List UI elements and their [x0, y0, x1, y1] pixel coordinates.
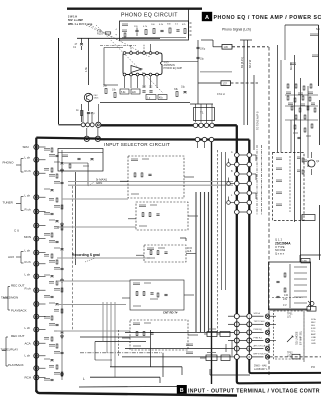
wire vertical links bottom [119, 330, 164, 377]
svg-text:TUNER: TUNER [3, 201, 14, 205]
capacitor C104 [151, 24, 155, 34]
junction switch contacts row 2 [84, 136, 100, 141]
wire to T1 [190, 103, 213, 105]
switch arrow contact [287, 336, 293, 342]
svg-text:AP1 SYCLA LO: AP1 SYCLA LO [254, 344, 270, 347]
svg-text:1815: 1815 [94, 98, 100, 100]
wire switch common dashed [289, 156, 291, 212]
pin box edge ticks [190, 23, 192, 35]
junction label A black box [202, 12, 212, 21]
switch block S2 [128, 202, 198, 230]
label TP01 [287, 314, 293, 319]
capacitor C107 [175, 24, 180, 32]
wire tape loop pair [80, 337, 150, 342]
svg-text:R ch: R ch [25, 260, 32, 264]
wire jack stubs [39, 147, 46, 377]
svg-text:O TYPE: O TYPE [275, 245, 285, 249]
label sheet title top [214, 15, 321, 21]
connector CN140 top of switch box [268, 307, 316, 312]
connector J10 input jack [25, 273, 39, 279]
wire bottom middle verticals [226, 340, 232, 356]
wire left border of phono EQ block [58, 38, 60, 124]
switch dashed enclosure bottom right [274, 311, 305, 362]
label right margin notes [310, 27, 321, 57]
svg-text:AMP: AMP [311, 333, 316, 336]
wire bottom link [210, 369, 250, 375]
connector J14 input jack [25, 326, 39, 332]
junction label B black box [177, 385, 186, 393]
capacitor C109 [142, 86, 147, 93]
wire supply tap top [240, 39, 252, 41]
connector CN139 dashed link [270, 354, 321, 359]
wire TUNER pair bracket [16, 197, 24, 211]
wire right vertical net [294, 55, 296, 222]
capacitor C101 [73, 38, 83, 50]
wire grey bus pair [68, 182, 233, 186]
svg-text:132: 132 [284, 294, 289, 297]
component cluster inside regulator box [276, 264, 307, 308]
svg-text:R ch: R ch [25, 208, 32, 212]
wire leader to recording signal [85, 258, 95, 262]
svg-text:L ch: L ch [25, 354, 31, 358]
label right margin pin names [311, 318, 316, 345]
svg-text:24V: 24V [283, 298, 288, 301]
component cluster tone amp right [285, 84, 318, 120]
connector J18 input jack [25, 375, 39, 380]
component cluster below tone amp [291, 86, 313, 158]
wire right vertical net 2 [300, 78, 302, 262]
component ladder input filters [44, 148, 64, 381]
svg-text:TAPE1/PLAY: TAPE1/PLAY [1, 348, 19, 352]
svg-text:SRU: SRU [23, 145, 29, 149]
wire lower rail of phono box [100, 102, 190, 104]
label switch contact names [276, 158, 282, 206]
label bottom middle notes [186, 344, 193, 354]
svg-text:INPUT SELECTOR CIRCUIT: INPUT SELECTOR CIRCUIT [104, 142, 170, 147]
resistor R101 [97, 30, 111, 36]
wire right top rail [285, 24, 319, 26]
resistor R109 [182, 24, 186, 34]
label line amp [163, 311, 178, 315]
wire bottom signal L [83, 377, 160, 381]
label left column [116, 29, 118, 36]
capacitor C119 and C121 rail [196, 40, 205, 104]
ground symbols ladder [60, 168, 64, 376]
wire bus B to bottom right [249, 359, 321, 373]
resistor R119 [158, 95, 167, 100]
connector J4 input jack [3, 194, 39, 205]
wire feedback left [104, 48, 123, 86]
wire dash-dot bias line [100, 45, 136, 47]
svg-text:PHN R-L: PHN R-L [254, 337, 264, 339]
svg-text:50V: Ls AMP: 50V: Ls AMP [68, 19, 83, 22]
wire feeds into terminals [122, 316, 234, 357]
resistor R113 [112, 89, 117, 98]
wire drops to terminal strip [160, 367, 182, 383]
svg-text:7(2) L MODE: 7(2) L MODE [297, 331, 299, 345]
wire long dashed net right [268, 47, 270, 375]
label wire note [217, 92, 225, 96]
svg-text:A: A [205, 15, 209, 21]
svg-text:L(7): L(7) [287, 316, 291, 318]
svg-text:PHONO EQ AMP: PHONO EQ AMP [164, 67, 183, 70]
transformer T1 box [194, 108, 215, 121]
pin bottom pins of U101 [123, 73, 158, 76]
note text schematic notes [68, 16, 93, 26]
svg-text:9 61 H: 9 61 H [217, 92, 225, 96]
svg-text:B F AMP SEL: B F AMP SEL [300, 330, 303, 345]
svg-text:R ch: R ch [25, 287, 32, 291]
wire phono input rail [77, 37, 160, 39]
wire dash-dot shield [80, 352, 162, 354]
svg-text:TNT TOHL I: TNT TOHL I [254, 321, 266, 323]
svg-text:B FF: B FF [311, 328, 316, 330]
label PHONO EQ CIRCUIT [121, 13, 178, 19]
svg-text:CNT RD 7#: CNT RD 7# [163, 311, 178, 315]
resistor pair bottom R303 R304 [200, 353, 230, 361]
capacitor C113 [146, 95, 156, 100]
wire supply pair with labels [240, 40, 252, 125]
connector J11 input jack [11, 284, 39, 293]
wire dash-dot pair right of buses [257, 145, 262, 215]
wire bus A vertical [236, 125, 238, 313]
svg-text:ALB: ALB [187, 250, 192, 253]
svg-text:WRL: Ls 16 V C amp: WRL: Ls 16 V C amp [68, 23, 93, 26]
wire dashed net 132 [272, 294, 303, 298]
svg-text:68.2 W: 68.2 W [248, 59, 252, 68]
svg-text:C U: C U [14, 229, 19, 233]
wire top pin risers [131, 44, 151, 52]
wire ladder feed rail [75, 172, 77, 265]
svg-text:REC OUT: REC OUT [11, 334, 25, 338]
svg-text:PLAYBACK: PLAYBACK [8, 363, 24, 367]
wire TAPE1 bracket [2, 337, 8, 366]
wire dashed callout leaders [86, 25, 163, 93]
svg-text:10μ: 10μ [200, 59, 205, 61]
resistor R117 [131, 89, 140, 94]
svg-text:LINE: LINE [311, 337, 316, 339]
connector J2 input jack [3, 156, 39, 165]
pin top pins of U101 [123, 52, 158, 55]
svg-text:REC: REC [311, 322, 316, 324]
wire group signal drops to terminals [196, 150, 226, 332]
wire bus A to bottom right [237, 359, 321, 383]
connector J9 input jack [25, 260, 39, 266]
terminal block output rows [234, 314, 269, 360]
junction T1 row 1 [193, 123, 214, 127]
svg-text:BFF E NICH O: BFF E NICH O [254, 354, 269, 356]
svg-text:PHONO EQ CIRCUIT: PHONO EQ CIRCUIT [121, 13, 178, 19]
resistor R103 [143, 26, 148, 35]
connector CN138 [301, 259, 310, 264]
wire grey recording buses [57, 199, 150, 331]
label rotated net name [290, 62, 296, 70]
switch block muting [122, 320, 198, 350]
wire PHONO pair bracket [16, 159, 24, 173]
capacitor C103 [134, 26, 139, 36]
connector J7 input jack [24, 235, 39, 241]
svg-text:B: B [180, 388, 184, 394]
svg-text:NO FIN2: NO FIN2 [275, 248, 286, 252]
resistor R107 [167, 24, 171, 34]
svg-text:2 W 1 H: 2 W 1 H [68, 16, 77, 19]
label Recording Signal [72, 253, 100, 257]
svg-text:137: 137 [223, 82, 228, 86]
wire IC bottom pin drops [125, 76, 158, 88]
svg-text:68.2 W: 68.2 W [290, 62, 293, 70]
label regulator voltages [283, 298, 288, 307]
switch block S4 [122, 280, 194, 310]
wire T1 primary drops [196, 104, 213, 123]
wire main bus lower [101, 138, 250, 141]
svg-text:390: 390 [142, 86, 147, 89]
transistor Q201 [308, 152, 320, 175]
connector CN136 phono signal [213, 45, 269, 50]
svg-text:AUX: AUX [8, 255, 14, 259]
svg-text:ACA: ACA [25, 342, 31, 346]
label INPUT SELECTOR CIRCUIT [104, 142, 170, 147]
wire TAPE2 bracket [3, 287, 10, 311]
connector J3 input jack [25, 169, 39, 176]
switch S201 dashed enclosure [273, 153, 316, 221]
svg-text:L ch: L ch [25, 326, 31, 330]
wire dash-dot shield rail [72, 186, 74, 330]
transistor Q101 [84, 93, 99, 101]
switch contact matrix rotary selector [227, 153, 256, 215]
label select annotation [88, 178, 107, 187]
svg-text:REC OUT: REC OUT [11, 284, 25, 288]
connector arrow right margin [308, 301, 314, 306]
label TP02 [287, 353, 293, 358]
svg-text:TP01: TP01 [287, 314, 293, 316]
wire output of U101 [162, 61, 198, 63]
svg-text:TP L: TP L [311, 331, 316, 333]
wire T1 drops [198, 142, 205, 148]
junction switch contacts row 1 [81, 122, 101, 127]
svg-text:138: 138 [302, 260, 307, 263]
svg-text:47μ: 47μ [91, 112, 96, 115]
svg-text:GND: GND [311, 343, 316, 345]
svg-text:INPUT · OUTPUT TERMINAL / VOL: INPUT · OUTPUT TERMINAL / VOLTAGE CONTR [188, 388, 320, 394]
svg-text:L: L [83, 377, 85, 381]
resistor R111 [103, 85, 108, 94]
node dashed corner [268, 46, 270, 48]
capacitor C105 [159, 24, 164, 32]
svg-text:SPK A: SPK A [254, 312, 261, 315]
resistor R102 [122, 24, 128, 37]
wire right edge lower segments [319, 100, 321, 260]
svg-text:Phono Signal (Lch): Phono Signal (Lch) [222, 28, 251, 32]
svg-text:RCH: RCH [25, 376, 32, 380]
connector J15 input jack [11, 334, 39, 346]
svg-text:Recording S gnal: Recording S gnal [72, 253, 100, 257]
svg-text:48 R: 48 R [187, 248, 192, 250]
svg-text:LAO84407 L: LAO84407 L [254, 368, 268, 371]
wire AUX pair bracket [16, 252, 24, 264]
svg-text:2SC2664A: 2SC2664A [275, 241, 291, 245]
svg-text:MON: MON [24, 235, 31, 239]
svg-text:TAPE2/MON: TAPE2/MON [1, 296, 18, 300]
filter block phono input [58, 149, 103, 172]
capacitor C111 [149, 86, 153, 93]
wire terminal column links [237, 319, 250, 355]
wire component rail lower [122, 37, 186, 39]
connector J17 input jack [8, 363, 39, 371]
svg-text:PHONO: PHONO [3, 161, 15, 165]
label Q2 value [302, 160, 307, 162]
svg-text:100μ: 100μ [200, 49, 206, 51]
svg-text:S2 A: S2 A [311, 318, 316, 321]
junction T1 row 2 [195, 137, 213, 141]
label S3 annotation [180, 238, 192, 253]
wire right vertical pair [278, 45, 282, 152]
wire thin pre-bottom rail [79, 385, 180, 388]
svg-text:R101: R101 [97, 33, 103, 36]
svg-text:L ch: L ch [25, 249, 31, 253]
label drawing number [254, 365, 268, 371]
label transistor type 2SC2664A [275, 238, 291, 256]
svg-text:PLAYBACK: PLAYBACK [11, 309, 27, 313]
label PO margin [311, 365, 316, 369]
wire into bus row 1 [59, 124, 82, 126]
connector J12 input jack [1, 296, 39, 307]
svg-text:B2 (6.3V): B2 (6.3V) [240, 57, 244, 68]
wire bias drops [82, 102, 89, 122]
svg-text:0 V: 0 V [283, 304, 287, 307]
svg-text:T1: T1 [200, 111, 204, 115]
svg-text:L ch: L ch [25, 194, 31, 198]
block phono input network box [120, 21, 189, 40]
wire regulator feed [300, 255, 321, 262]
label rotated mode text [297, 330, 303, 345]
block voltage regulator box [269, 262, 311, 310]
wire L-link [95, 342, 112, 361]
svg-text:R ch: R ch [25, 169, 32, 173]
wire grey return path [200, 71, 232, 73]
connector J1 input jack [23, 145, 39, 150]
svg-text:PWR F(): PWR F() [254, 329, 263, 331]
wire bottom signal [110, 366, 182, 368]
svg-text:TO TONE AMP B: TO TONE AMP B [257, 111, 260, 130]
wire bus B vertical [248, 140, 250, 314]
wire right edge verticals [285, 25, 319, 86]
label U101 part number [164, 61, 183, 70]
wire selector frame top left [36, 138, 100, 139]
wire selector frame left vertical bus [35, 138, 37, 392]
op-amp U101 phono EQ amp [123, 53, 162, 75]
wire contact risers [83, 104, 98, 136]
connector J13 input jack [11, 309, 39, 320]
connector CN137 phono return [198, 81, 258, 86]
label terminal row names [254, 312, 270, 356]
svg-text:L ch: L ch [25, 156, 31, 160]
resistor R115 [120, 89, 129, 94]
wire top border of phono EQ block [67, 7, 202, 9]
svg-text:L ch: L ch [25, 273, 31, 277]
connector J5 input jack [25, 208, 39, 215]
svg-text:136: 136 [224, 45, 229, 49]
svg-text:10μ: 10μ [181, 86, 186, 89]
label contact rows [231, 151, 233, 197]
connector J8 input jack [8, 249, 39, 260]
wire filter box drop [87, 163, 89, 186]
wire from EQ out to CN136 [201, 40, 213, 47]
label sheet title bottom [188, 388, 320, 394]
wire trimmer outputs [270, 316, 276, 340]
svg-text:Q n m n: Q n m n [275, 252, 285, 256]
svg-text:1.5k: 1.5k [84, 66, 88, 72]
wire ladder ground rail [61, 150, 63, 380]
label Phono Signal Lch [222, 28, 251, 32]
wire bottom frame line [36, 390, 237, 396]
resistor R121 and capacitor C115 [174, 86, 187, 97]
switch block function S1 [120, 156, 194, 198]
svg-text:OUT: OUT [311, 340, 316, 342]
wire center feed vertical [211, 142, 213, 385]
wire with label to EQ amp [84, 38, 88, 85]
wire main bus upper [101, 124, 237, 126]
connector J16 input jack [1, 348, 39, 359]
wire right border of phono EQ block [188, 9, 190, 38]
wire tone amp feed with rotated label [254, 75, 260, 150]
resistor R123 and capacitor C117 [76, 109, 95, 116]
resistor pair R201 R203 [297, 157, 304, 174]
resistor pair bottom R301 R302 [204, 329, 230, 337]
wire grey drops bottom left [103, 302, 115, 377]
switch block S3 [136, 245, 196, 262]
svg-text:PHONO EQ / TONE AMP / POWER: PHONO EQ / TONE AMP / POWER SC [214, 15, 321, 21]
connector J6 input jack [14, 223, 39, 232]
